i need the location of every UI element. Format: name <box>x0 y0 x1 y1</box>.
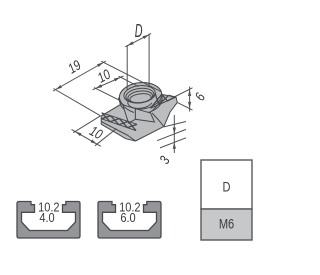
wire: dimension 3 line vertical <box>173 115 175 153</box>
wire: dimension 10 upper extension right <box>119 76 139 86</box>
wire: dimension D line <box>125 34 151 47</box>
T-nut body: collar cylinder silhouette <box>118 81 163 116</box>
svg-text:6: 6 <box>192 90 209 103</box>
T-nut body: plate silhouette <box>101 95 177 142</box>
wire: dimension 3 extension line D3 <box>160 138 186 148</box>
svg-text:19: 19 <box>65 57 83 77</box>
node: dimension 10 upper arrows <box>96 84 103 88</box>
wire: dimension 19 line <box>53 61 106 91</box>
T-nut body: left serration X hatching <box>102 113 138 131</box>
T-nut body: front-left face mid edge <box>101 122 128 136</box>
svg-text:10: 10 <box>95 66 113 85</box>
svg-text:M6: M6 <box>219 215 234 232</box>
T-nut body: right serration band inner edge <box>151 97 177 108</box>
T-nut body: centre block front-right face <box>135 109 154 122</box>
wire: dimension 10 lower extension line lower <box>95 129 116 146</box>
node: dimension 3 arrows <box>173 128 176 135</box>
T-nut body: left serration band outer edge <box>102 113 137 125</box>
profile icon: slot 10.2 x 6.0 <box>98 202 161 239</box>
T-nut body: front mid step edge <box>128 136 136 142</box>
T-nut body: centre block front-left face <box>123 105 136 123</box>
T-nut body: top-left ridge edge <box>101 105 120 117</box>
T-nut body: cylinder-ramp intersection curve <box>152 113 164 127</box>
wire: dimension 10 upper extension left <box>94 88 119 101</box>
svg-text:D: D <box>135 21 143 42</box>
svg-text:D: D <box>223 178 231 195</box>
profile icon: slot 10.2 x 4.0 <box>17 202 80 239</box>
wire: dimension 19 extension line left <box>54 89 101 116</box>
T-nut body: collar top rim ellipse <box>118 81 163 112</box>
node: dimension 10 lower arrows <box>75 132 81 137</box>
svg-text:4.0: 4.0 <box>39 210 55 225</box>
T-nut body: left serration band inner edge <box>102 119 137 131</box>
node: dimension 19 arrows <box>56 85 62 90</box>
wire: dimension D extension line right vertical <box>148 34 150 87</box>
T-nut body: thread arcs inside hole <box>125 87 155 109</box>
T-nut body: collar wall bottom curve left <box>120 102 134 113</box>
wire: dimension 6 extension line bottom <box>177 102 192 110</box>
wire: dimension 10 lower line <box>72 129 101 146</box>
table: thread size, cell D <box>201 160 252 209</box>
wire: dimension 10 upper line <box>93 76 124 90</box>
svg-text:6.0: 6.0 <box>120 210 136 225</box>
wire: dimension 6 extension line top <box>175 88 192 97</box>
wire: dimension 3 reference line D1 bottom edge extension <box>164 122 186 127</box>
T-nut body: thread crest ellipse (hole rim) <box>123 84 156 105</box>
node: dimension D arrows <box>127 41 134 45</box>
T-nut body: collar wall bottom curve right <box>150 100 162 113</box>
wire: dimension 19 extension line right <box>101 61 161 92</box>
T-nut body: right serration X hatching <box>151 93 176 108</box>
wire: dimension D extension line left vertical <box>126 45 128 90</box>
table: thread size, cell M6 <box>201 209 252 240</box>
wire: dimension 3 extension line D2 <box>157 129 186 140</box>
wire: dimension 6 line vertical <box>189 87 191 112</box>
svg-text:3: 3 <box>157 154 174 167</box>
node: dimension 6 arrows <box>188 90 191 97</box>
wire: dimension 10 lower extension line upper <box>73 116 100 133</box>
